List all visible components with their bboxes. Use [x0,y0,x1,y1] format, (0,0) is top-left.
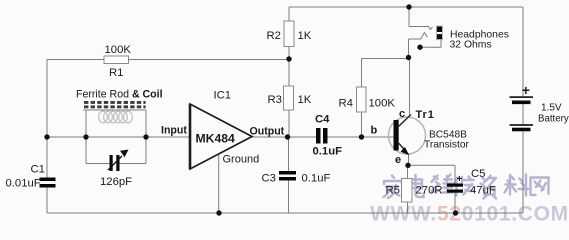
wire jack switch arm [409,33,428,39]
watermark chinese characters [384,175,549,199]
svg-text:270R: 270R [416,185,443,197]
wire jack branch from top rail [408,7,410,27]
resistor R4 [357,87,367,112]
wire emitter row [408,164,455,166]
battery cell plates [510,96,534,131]
svg-text:Output: Output [250,126,285,138]
svg-text:Tr1: Tr1 [416,109,435,121]
svg-text:Transistor: Transistor [424,140,470,151]
wire tuned circuit row [47,136,189,138]
svg-text:0.1uF: 0.1uF [302,173,331,185]
coil loops [99,111,133,123]
wire bottom rail [47,212,523,214]
wire variable cap right lead [120,163,147,165]
svg-text:c: c [399,108,405,120]
node emitter [405,163,410,168]
headphone jack plug [436,26,442,40]
node R1/R2/R3 junction [286,56,291,61]
char 6 [505,175,529,196]
svg-text:R3: R3 [268,94,282,106]
svg-text:Ground: Ground [223,154,260,166]
wire left rail upper [46,60,48,178]
char 1 [384,176,403,199]
svg-text:C3: C3 [262,173,276,185]
wire top rail [289,6,523,8]
transistor Q1 circle [389,117,426,154]
wire R4 bottom lead [361,112,363,137]
svg-text:0.1uF: 0.1uF [313,146,343,158]
wire C3 top lead [288,137,290,171]
wire left rail lower [46,188,48,214]
node ground rail / C5 [453,210,458,215]
svg-text:e: e [395,154,401,166]
svg-text:b: b [371,125,378,137]
wire right rail upper [522,7,524,97]
svg-text:0.01uF: 0.01uF [6,178,41,190]
resistor R1 [104,56,129,64]
wire coil right end [145,110,147,164]
transistor emitter lead with arrow [399,143,404,149]
svg-text:Battery: Battery [538,114,569,125]
svg-text:IC1: IC1 [214,90,232,102]
char 3 [432,175,453,193]
svg-text:R4: R4 [339,98,353,110]
wire coil top bar [83,109,146,111]
wire R2-R3 link [288,47,290,87]
wire R4 to collector node [362,58,409,60]
wire R3 bottom lead [288,110,290,137]
wire jack tip contact [409,27,433,30]
node coil right / IC input [143,134,148,139]
svg-text:100K: 100K [105,44,132,56]
capacitor C3 [279,171,296,181]
node top rail / jack [406,4,411,9]
svg-text:MK484: MK484 [196,132,236,146]
svg-text:47uF: 47uF [470,185,496,197]
ferrite rod [84,101,146,108]
wire jack sleeve lead [420,40,441,48]
capacitor C1 [40,178,56,188]
transistor base bar [394,120,399,151]
char 2 [409,175,424,197]
node jack sleeve terminal [417,45,422,50]
char 5 [481,176,497,199]
svg-text:32 Ohms: 32 Ohms [450,40,492,51]
wire right rail mid [522,104,524,125]
wire R1 left lead [47,59,104,61]
svg-text:+: + [457,174,463,185]
wire output row left [252,136,316,138]
wire collector lead [409,58,411,115]
wire R1 right lead to node [129,59,290,61]
svg-text:100K: 100K [369,98,396,110]
resistor R3 [284,86,294,110]
svg-text:R1: R1 [109,67,123,79]
node IC output [285,134,290,139]
svg-text:C5: C5 [471,168,485,180]
wire R4 top lead [361,59,363,88]
svg-text:C1: C1 [31,164,45,176]
char 7 [531,178,549,196]
svg-text:R2: R2 [267,30,281,42]
svg-text:Input: Input [161,125,187,137]
node ground rail / IC ground [216,210,221,215]
node coil left [83,134,88,139]
wire right rail lower [522,132,524,214]
svg-text:C4: C4 [315,114,330,126]
wire C5 top lead [454,165,456,183]
svg-text:1K: 1K [298,30,312,42]
char 4 [454,177,474,196]
svg-text:126pF: 126pF [100,176,132,188]
node R4 / base [359,134,364,139]
wire C5 bottom lead [454,193,456,214]
node collector / R4 / jack switch [406,55,411,60]
svg-text:R5: R5 [386,185,400,197]
svg-text:1.5V: 1.5V [541,103,562,114]
capacitor C4 [316,128,328,144]
transistor collector lead [399,115,411,127]
wire emitter down lead [408,155,410,166]
wire R2 top lead [288,7,290,21]
wire R5 top lead [407,165,409,178]
wire jack switch vertical [408,39,410,58]
node left rail / tuned circuit [44,134,49,139]
svg-text:1K: 1K [298,94,312,106]
svg-text:+: + [522,82,530,98]
wire C3 bottom lead [288,181,290,214]
wire R5 bottom lead [407,202,409,213]
wire C4 to base [328,136,394,138]
svg-text:Ferrite Rod & Coil: Ferrite Rod & Coil [76,89,163,101]
wire coil left end [85,110,87,164]
capacitor C5 [447,184,463,193]
op-amp IC1 MK484 triangle [190,104,252,169]
wire IC ground lead [218,154,220,213]
resistor R5 [402,179,413,203]
resistor R2 [284,21,294,47]
variable capacitor 126pF [108,150,129,172]
wire variable cap left lead [86,163,110,165]
